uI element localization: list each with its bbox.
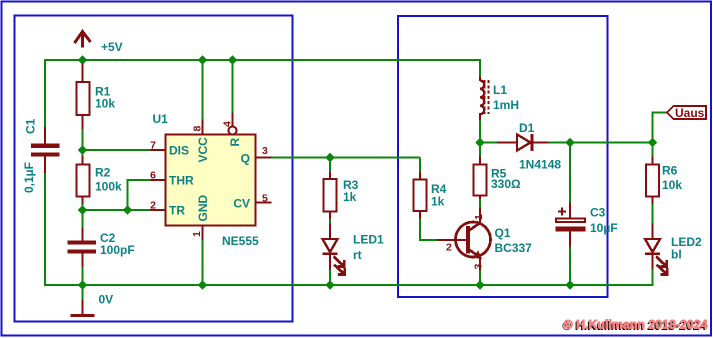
svg-text:CV: CV <box>233 197 250 211</box>
resistor R5 <box>474 165 487 196</box>
wire LED1 to 0V <box>329 269 331 285</box>
svg-text:5: 5 <box>262 193 268 205</box>
wire L1 pin top <box>479 77 481 82</box>
node +5V R1 <box>78 55 87 64</box>
svg-text:0,1µF: 0,1µF <box>22 162 36 193</box>
wire base net <box>419 239 437 241</box>
svg-text:3: 3 <box>473 264 485 270</box>
svg-text:C1: C1 <box>24 118 38 134</box>
pin 4 R <box>232 113 234 127</box>
node L1-D1-R5 junction <box>475 138 484 147</box>
wire C1 to bottom rail <box>44 172 46 286</box>
wire R5 pin top <box>479 157 481 165</box>
svg-text:10µF: 10µF <box>590 221 618 235</box>
wire C3 top <box>569 143 571 204</box>
pin 5 CV <box>255 202 272 204</box>
wire top +5V rail <box>44 59 481 61</box>
wire C3 pin bottom <box>569 231 571 247</box>
svg-text:100k: 100k <box>95 180 122 194</box>
svg-text:rt: rt <box>353 248 362 262</box>
wire GND pin to 0V <box>202 239 204 285</box>
pin 2 TR <box>150 209 166 211</box>
svg-text:U1: U1 <box>153 112 169 126</box>
svg-text:L1: L1 <box>493 83 507 97</box>
wire C2 pin top <box>82 228 84 242</box>
ground symbol 0V <box>71 314 95 317</box>
wire R2 pin bottom <box>82 196 84 204</box>
node Q-R3 junction <box>325 153 334 162</box>
svg-text:VCC: VCC <box>196 137 210 163</box>
wire LED2 to 0V <box>652 269 654 286</box>
wire Uaus horizontal <box>653 112 668 114</box>
output flag Uaus <box>667 106 706 120</box>
wire TR net <box>83 209 152 211</box>
svg-text:C3: C3 <box>590 206 606 220</box>
wire R4 pin bottom <box>419 211 421 219</box>
svg-text:D1: D1 <box>519 121 535 135</box>
frame left block <box>15 16 293 322</box>
capacitor C2 <box>68 241 97 254</box>
wire LED2 pin bottom <box>652 255 654 270</box>
diode D1 <box>517 134 532 151</box>
node C2-0V junction <box>78 280 87 289</box>
wire R6 pin top <box>652 157 654 165</box>
svg-text:0V: 0V <box>99 293 114 307</box>
wire R3 to LED1 <box>329 218 331 224</box>
svg-text:1k: 1k <box>431 195 445 209</box>
svg-text:1k: 1k <box>343 190 357 204</box>
wire R4 pin top <box>419 172 421 180</box>
wire bottom 0V rail <box>44 284 654 286</box>
wire Q1 emitter lead <box>479 258 481 271</box>
node D1-R6-Uaus junction <box>648 138 657 147</box>
wire R1 top <box>82 60 84 65</box>
inductor L1 <box>480 80 489 114</box>
wire D1 cathode lead <box>533 142 549 144</box>
pin 6 THR <box>150 179 166 181</box>
svg-text:3: 3 <box>262 145 268 157</box>
svg-text:2: 2 <box>150 200 156 212</box>
wire LED1 pin top <box>329 224 331 240</box>
node RST rail <box>228 55 237 64</box>
wire DIS net <box>83 149 152 151</box>
pin 4 inversion bubble <box>229 127 237 135</box>
pin 1 GND <box>202 225 204 240</box>
svg-text:1mH: 1mH <box>493 98 519 112</box>
wire emitter to 0V <box>479 270 481 285</box>
wire Q1 base lead <box>437 239 456 241</box>
wire C1 pin top <box>44 127 46 144</box>
wire left branch to C1 <box>44 59 46 128</box>
svg-text:8: 8 <box>192 126 204 132</box>
svg-text:1N4148: 1N4148 <box>519 158 561 172</box>
wire L1 bottom to node <box>479 120 481 143</box>
wire Q1 collector lead <box>479 208 481 224</box>
wire Q output net <box>271 157 420 159</box>
svg-text:2: 2 <box>446 242 452 254</box>
svg-text:NE555: NE555 <box>222 234 259 248</box>
pin 3 Q <box>255 157 272 159</box>
svg-text:R2: R2 <box>95 166 111 180</box>
wire R3 pin bottom <box>329 211 331 219</box>
svg-text:Q1: Q1 <box>495 226 511 240</box>
wire R4 bottom drop <box>419 218 421 241</box>
wire R2 top <box>82 150 84 158</box>
wire THR jog vertical <box>127 179 129 210</box>
resistor R4 <box>414 180 427 212</box>
svg-text:BC337: BC337 <box>495 241 533 255</box>
power +5V arrow <box>75 32 91 48</box>
svg-text:TR: TR <box>169 204 185 218</box>
wire LED1 pin bottom <box>329 255 331 270</box>
resistor R3 <box>324 179 337 212</box>
svg-text:LED1: LED1 <box>353 233 384 247</box>
node Q1E-0V junction <box>475 280 484 289</box>
wire R3 top <box>329 158 331 174</box>
wire D1 cathode net <box>548 142 653 144</box>
wire R5 pin bottom <box>479 195 481 199</box>
wire node to R5 top <box>479 143 481 158</box>
transistor Q1 <box>456 222 491 259</box>
svg-text:100pF: 100pF <box>100 243 135 257</box>
wire R6 pin bottom <box>652 196 654 204</box>
wire RST pin drop <box>232 60 234 113</box>
wire C2 pin bottom <box>82 253 84 267</box>
wire L1 pin bottom <box>479 113 481 120</box>
copyright text <box>562 318 708 334</box>
capacitor C1 <box>31 144 60 157</box>
node VCC rail <box>198 55 207 64</box>
svg-text:R: R <box>228 138 242 147</box>
wire R2 pin top <box>82 156 84 165</box>
wire R1 pin bottom <box>82 115 84 129</box>
wire C2 top <box>82 210 84 228</box>
wire R6 bottom to LED2 <box>652 203 654 224</box>
pin 7 DIS <box>150 149 166 151</box>
svg-text:7: 7 <box>150 140 156 152</box>
svg-text:Q: Q <box>241 152 250 166</box>
resistor R1 <box>77 82 90 115</box>
wire D1 anode lead <box>497 142 517 144</box>
pin 8 VCC <box>202 120 204 136</box>
svg-text:10k: 10k <box>95 97 115 111</box>
svg-text:GND: GND <box>196 195 210 222</box>
node C3-0V junction <box>565 280 574 289</box>
svg-text:330Ω: 330Ω <box>491 177 521 191</box>
svg-text:10k: 10k <box>662 178 682 192</box>
svg-text:Uaus: Uaus <box>675 106 705 120</box>
wire VCC pin drop <box>202 60 204 120</box>
node DIS junction <box>78 145 87 154</box>
svg-text:R6: R6 <box>662 164 678 178</box>
wire C3 bottom <box>569 246 571 285</box>
svg-text:© H.Kullmann 2018-2024: © H.Kullmann 2018-2024 <box>564 318 708 332</box>
LED LED2 <box>645 239 667 274</box>
wire C1 pin bottom <box>44 156 46 173</box>
wire THR net horizontal <box>128 179 152 181</box>
node THR-TR junction <box>123 205 132 214</box>
node TR junction <box>78 205 87 214</box>
wire R3 pin top <box>329 172 331 179</box>
node GND-0V junction <box>198 280 207 289</box>
svg-text:1: 1 <box>191 231 203 237</box>
node D1-C3 junction <box>565 138 574 147</box>
svg-text:1: 1 <box>473 214 485 220</box>
wire to ground <box>82 285 84 301</box>
LED LED1 <box>323 239 345 274</box>
wire C3 pin top <box>569 203 571 219</box>
svg-text:THR: THR <box>169 174 194 188</box>
wire R2 bottom <box>82 203 84 211</box>
wire C2 bottom <box>82 266 84 285</box>
svg-text:DIS: DIS <box>169 144 189 158</box>
resistor R2 <box>77 165 90 197</box>
op-amp U1 555 IC body <box>166 135 256 226</box>
wire L1 top <box>479 59 481 77</box>
resistor R6 <box>646 165 659 197</box>
svg-text:6: 6 <box>150 170 156 182</box>
capacitor C3 polarized <box>556 208 586 232</box>
wire node to D1 anode <box>480 142 497 144</box>
wire R1 pin top <box>82 63 84 82</box>
node LED1-0V junction <box>325 280 334 289</box>
wire LED2 pin top <box>652 224 654 240</box>
svg-text:bl: bl <box>671 248 682 262</box>
wire R4 top corner <box>419 158 421 173</box>
wire R5 bottom to collector <box>479 199 481 209</box>
svg-text:+5V: +5V <box>101 40 123 54</box>
wire ground stub <box>82 300 84 314</box>
frame right block <box>398 16 608 297</box>
wire R1 bottom to node DIS <box>82 128 84 151</box>
svg-text:4: 4 <box>222 121 234 127</box>
wire Uaus drop to node <box>652 112 654 158</box>
